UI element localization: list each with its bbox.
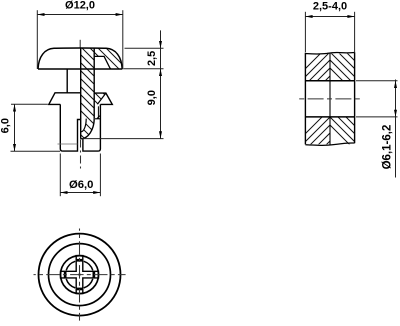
head underside line (38, 68, 122, 70)
panel bottom break line (305, 143, 354, 145)
horizontal centerline (34, 274, 126, 276)
flange right section (94, 93, 112, 104)
arrow up to head bottom (159, 69, 162, 76)
right leg ledge chamfer (97, 115, 101, 118)
hatch: pin column and hook (58, 0, 153, 223)
svg-text:2,5: 2,5 (146, 51, 158, 66)
svg-text:2,5-4,0: 2,5-4,0 (313, 0, 347, 12)
svg-text:Ø6,0: Ø6,0 (69, 179, 94, 191)
left leg outline (60, 104, 80, 151)
dim line (60, 192, 100, 194)
ext line right (122, 10, 124, 69)
svg-text:Ø12,0: Ø12,0 (65, 0, 95, 11)
ext line hole top (356, 80, 398, 82)
pin hook outer arc (81, 118, 95, 138)
dim line vertical left (14, 104, 16, 151)
bore arcs (66, 261, 93, 288)
panel centerline (297, 98, 363, 100)
dim line (37, 14, 123, 16)
hatch: head right half section (58, 0, 153, 223)
cross tip mark top (77, 259, 83, 262)
ext line left (36, 10, 38, 69)
arrow up (394, 81, 397, 88)
panel left edge (304, 53, 306, 145)
head circle (39, 234, 121, 316)
ext line pin hook bottom (82, 138, 164, 140)
arrow left (305, 15, 312, 18)
arrow down to head top (159, 41, 162, 48)
svg-text:6,0: 6,0 (0, 118, 12, 133)
hatch: flange right section (58, 0, 153, 223)
arrow left (60, 191, 67, 194)
panel hatch bottom-right (320, 67, 360, 155)
arrow right (116, 13, 123, 16)
cross tip mark left (64, 272, 67, 278)
ext line legs bottom left (11, 150, 61, 152)
head cavity outline (94, 56, 110, 69)
pin left edge (80, 48, 82, 139)
ext line head bottom right (124, 68, 164, 70)
center dot (79, 274, 81, 276)
panel hatch top-left (300, 34, 340, 122)
dim line (305, 16, 354, 18)
panel right edge (354, 52, 356, 143)
ext line hole bottom (356, 116, 398, 118)
ext line flange bottom left (11, 103, 48, 105)
dim line vertical right (160, 30, 162, 138)
cross tip mark right (93, 272, 96, 278)
centerline below rivet (80, 140, 82, 170)
right leg outline (83, 104, 101, 151)
panel top break line (305, 52, 354, 54)
centerline above head (79, 40, 81, 49)
svg-text:9,0: 9,0 (146, 90, 158, 105)
flange right inner slant (97, 93, 106, 104)
expansion cross outline (61, 256, 99, 294)
pin inner arc (81, 119, 86, 132)
ext line left shaft (59, 154, 61, 197)
right leg inner wall (97, 106, 99, 119)
arrow right (347, 15, 354, 18)
cross tip mark bottom (77, 288, 83, 291)
shaft circle (61, 256, 99, 294)
dim line vertical (395, 80, 397, 178)
right leg inner ledge (95, 118, 100, 120)
svg-text:Ø6,1-6,2: Ø6,1-6,2 (382, 125, 394, 170)
pin bore white area (81, 119, 86, 132)
ext line panel left (304, 12, 306, 52)
arrow down to hook bottom (159, 131, 162, 138)
ext line panel right (354, 12, 356, 52)
flange circle (49, 244, 111, 306)
ext line right shaft (99, 154, 101, 197)
left leg inner line (58, 143, 78, 145)
panel hatch top-right (320, 10, 360, 98)
pin right edge (93, 48, 95, 118)
neck left edge (66, 69, 68, 93)
panel hatch bottom-left (300, 99, 340, 187)
hole top edge (305, 80, 354, 82)
ext line head top right (125, 47, 164, 49)
arrow left (37, 13, 44, 16)
arrow right (93, 191, 100, 194)
arrow up (13, 104, 16, 111)
rivet head outline (38, 48, 122, 69)
flange left half (49, 93, 81, 105)
arrow down (13, 144, 16, 151)
panel middle line (329, 53, 331, 145)
hole bottom edge (305, 116, 354, 118)
arrow down (394, 110, 397, 117)
vertical centerline (79, 229, 81, 321)
